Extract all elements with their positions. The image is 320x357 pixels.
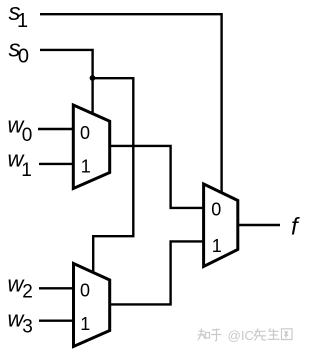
- wire w1: [39, 163, 73, 165]
- wire s0 branch to mux U2 select: [93, 78, 134, 273]
- wire f output: [238, 224, 280, 226]
- svg-text:0: 0: [80, 123, 90, 143]
- wire w2: [39, 287, 74, 289]
- svg-text:1: 1: [17, 10, 28, 32]
- label w2: [8, 272, 33, 303]
- label w0: [8, 113, 33, 147]
- watermark 知乎 @IC先生网: [198, 329, 222, 341]
- node junction on s0: [90, 75, 96, 81]
- mux U1 (top 2-to-1 multiplexer): [73, 105, 109, 189]
- svg-text:0: 0: [211, 199, 221, 219]
- label w1: [8, 147, 32, 181]
- mux U3 (output 2-to-1 multiplexer): [204, 184, 238, 267]
- svg-text:@IC: @IC: [228, 328, 255, 343]
- label s0: [9, 35, 30, 67]
- wire U1 output to U3 input 0: [110, 146, 204, 208]
- svg-text:0: 0: [22, 125, 33, 146]
- svg-text:0: 0: [18, 45, 29, 67]
- mux U2 (bottom 2-to-1 multiplexer): [74, 264, 110, 347]
- wire U2 output to U3 input 1: [110, 241, 204, 304]
- label w3: [8, 307, 33, 338]
- svg-text:1: 1: [21, 160, 32, 181]
- svg-text:1: 1: [212, 236, 222, 256]
- wire s0 (horizontal then down to mux U1 select): [40, 50, 93, 114]
- svg-text:0: 0: [80, 281, 90, 301]
- wire s1 (horizontal then down to mux U3 select): [40, 14, 222, 193]
- svg-text:1: 1: [80, 314, 90, 334]
- svg-text:2: 2: [22, 282, 33, 303]
- label s1: [9, 0, 29, 32]
- wire w0: [38, 128, 73, 130]
- svg-text:3: 3: [22, 316, 33, 337]
- svg-text:1: 1: [81, 157, 91, 177]
- wire w3: [39, 320, 74, 322]
